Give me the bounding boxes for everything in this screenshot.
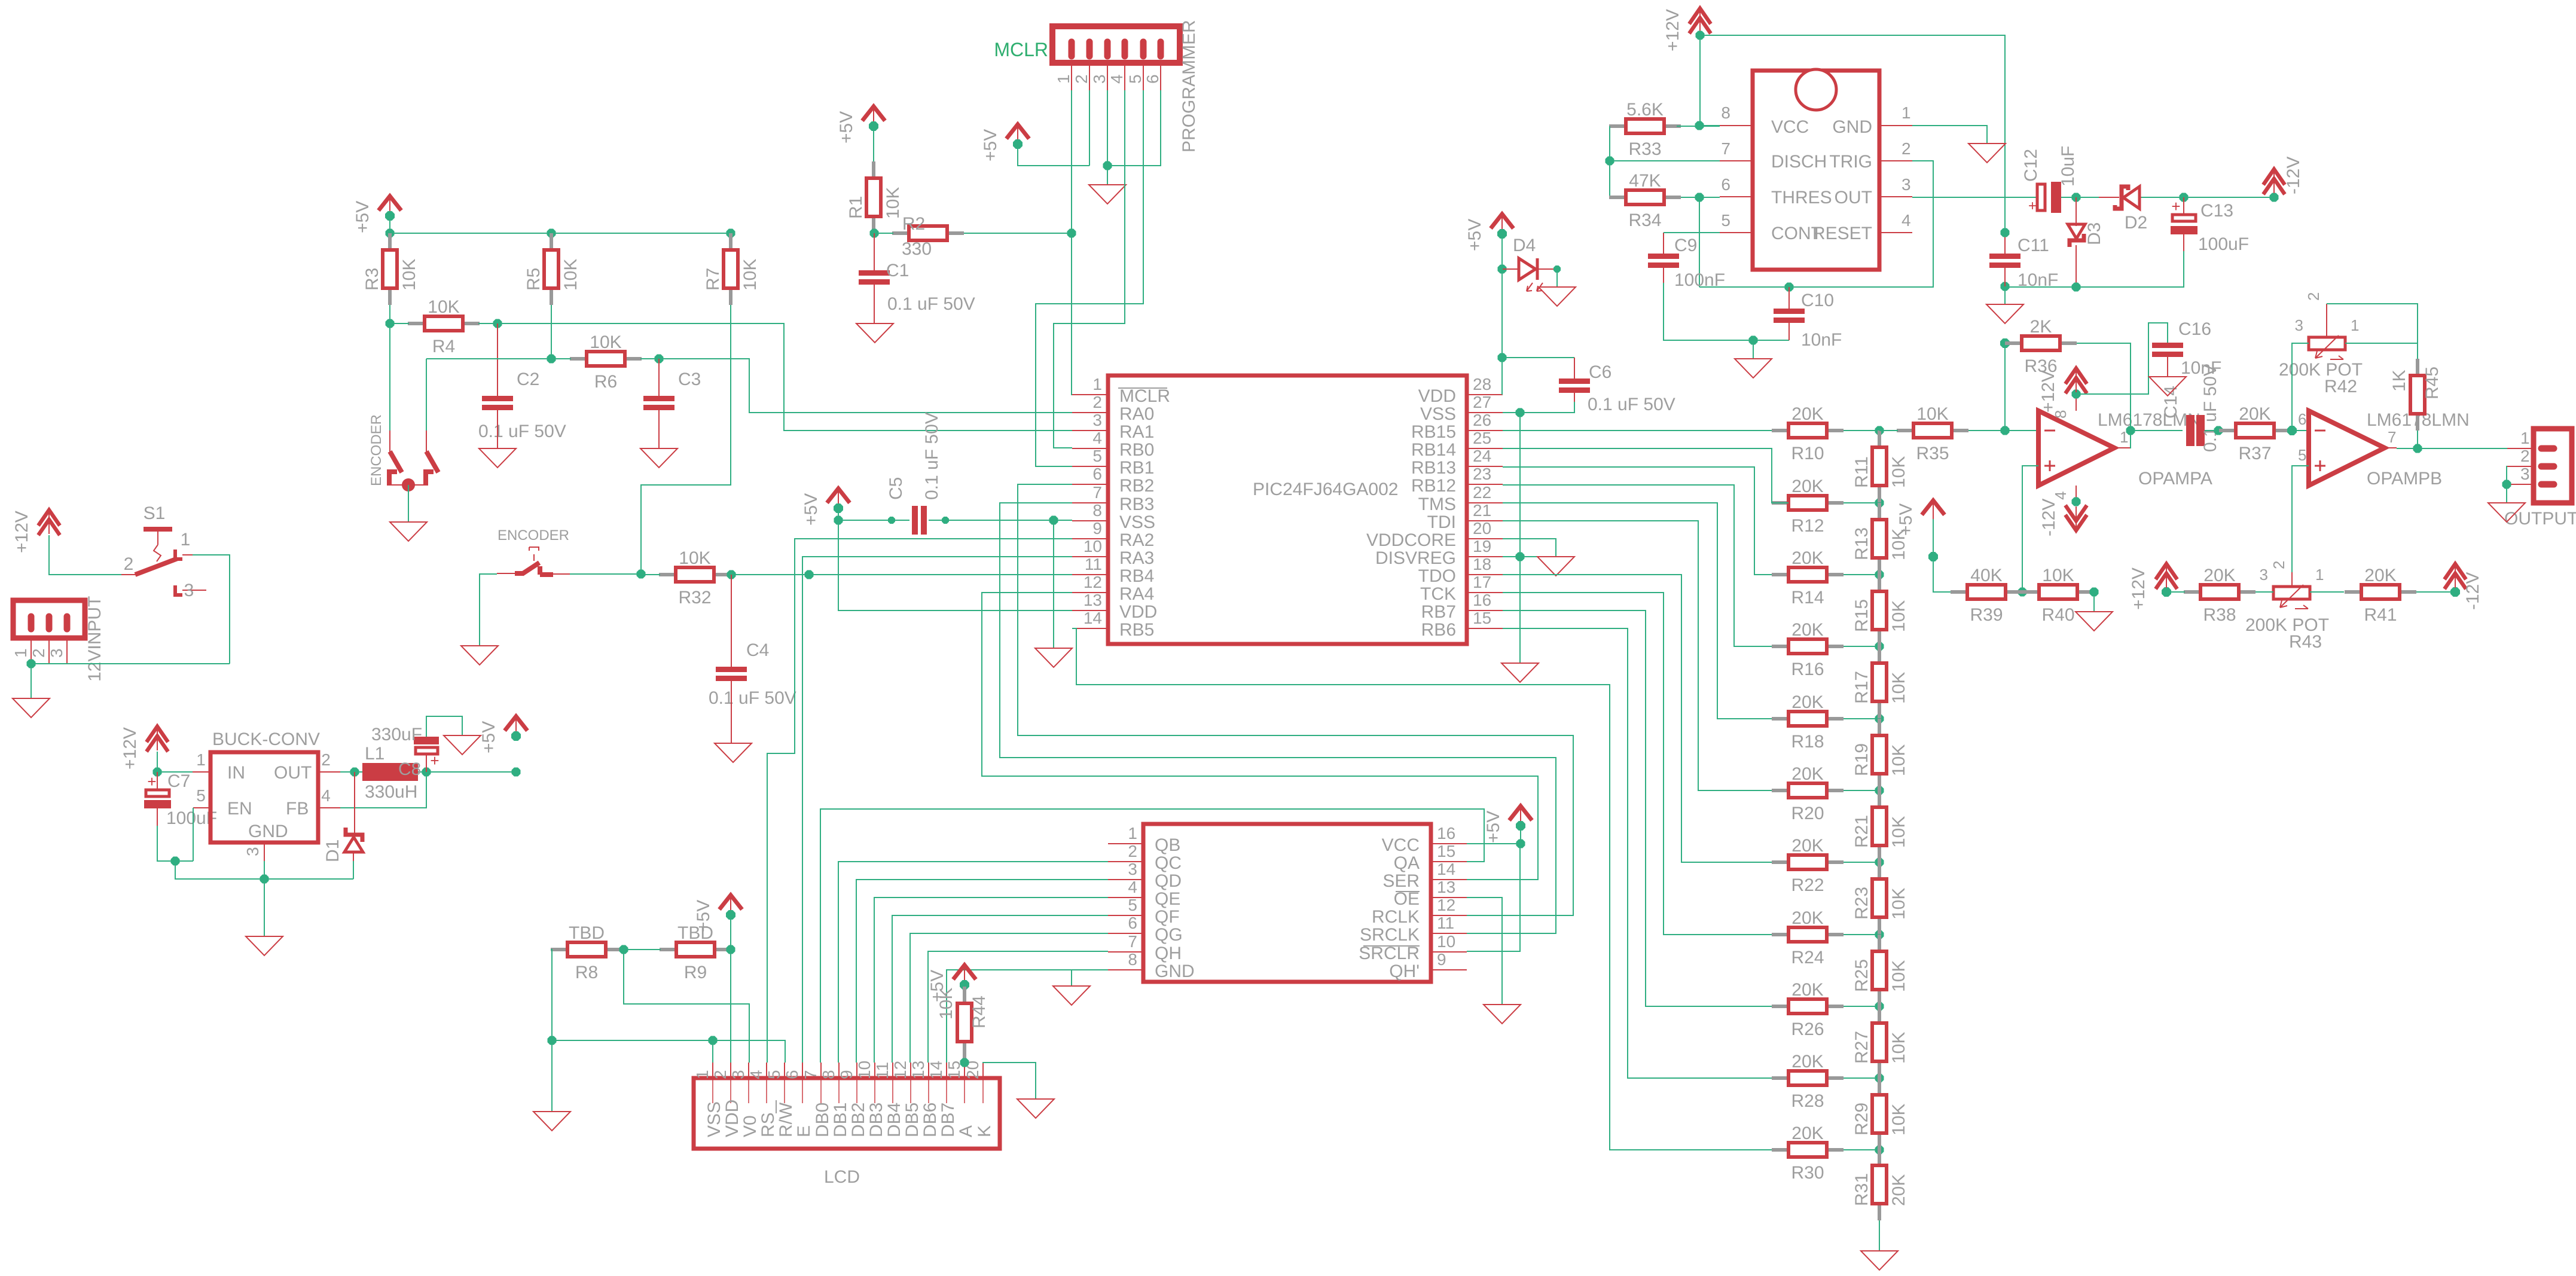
svg-text:20K: 20K [1791,620,1823,640]
node ladder R26 [1875,1002,1884,1011]
wire THRES [1681,197,1720,198]
wire SR GND to ground [1072,970,1108,986]
junction RB4 / encoder right stub [805,570,814,579]
junction D4 cathode [1553,265,1561,273]
svg-text:C14: C14 [2161,386,2181,419]
resistor R10 20K [1772,404,1844,463]
svg-text:R14: R14 [1791,588,1824,608]
wire gnd drop 555 [1753,340,1754,359]
wire opamp A fb node [2004,343,2006,431]
junction R7 top [727,229,735,238]
node ladder R12 [1875,499,1884,508]
wire RA2 to LCD RS [767,539,1072,1063]
svg-text:5.6K: 5.6K [1626,100,1664,120]
svg-text:DB0: DB0 [813,1103,832,1137]
power flag +5V (R44) [927,965,976,1002]
wire RA4 to SR SER [982,593,1538,880]
svg-text:K: K [975,1125,994,1137]
power flag +5V (SR VCC) [1484,806,1532,843]
svg-text:2: 2 [29,648,48,658]
svg-text:R24: R24 [1791,948,1824,967]
svg-text:10nF: 10nF [2181,358,2221,378]
svg-text:QA: QA [1394,853,1420,873]
junction R37/R42 [2287,426,2297,435]
pin buck EN stub [193,786,210,808]
potentiometer R43 200K [2245,566,2329,652]
wire R20 to ladder node [1844,790,1879,791]
wire OUT to L1 [340,771,362,773]
svg-text:20K: 20K [1791,548,1823,568]
wire RB14 to R12 [1503,448,1788,503]
svg-text:+12V: +12V [120,727,140,770]
svg-text:R45: R45 [2422,367,2442,399]
pin C5 left end [888,517,895,524]
wire DISVREG to gnd right [1503,556,1556,557]
svg-text:RB15: RB15 [1411,422,1456,442]
resistor R16 20K [1772,620,1844,679]
power flag -12V (R41) [2444,564,2466,589]
svg-text:QC: QC [1155,853,1182,873]
ground C4 [715,743,752,762]
svg-text:TRIG: TRIG [1829,152,1872,172]
svg-text:S1: S1 [144,503,166,523]
svg-text:4: 4 [1128,878,1137,896]
svg-text:TCK: TCK [1420,584,1456,604]
svg-text:4: 4 [1107,74,1126,84]
wire R10 to ladder node [1844,430,1879,431]
wire 12VINPUT gnd drop [30,664,32,698]
svg-text:DISVREG: DISVREG [1375,548,1456,568]
wire D2 to C13/-12V [2141,197,2274,198]
svg-text:R22: R22 [1791,875,1824,895]
wire D1 bottom to gnd rail [353,861,354,879]
wire programmer pin3/pin6 gnd rail [1107,90,1108,166]
wire QB to LCD DB1 [838,862,1108,1063]
resistor R14 20K [1772,548,1844,608]
wire CONT to C9 [1664,232,1720,233]
wire +5V to programmer pin2 [1018,144,1089,166]
svg-text:R19: R19 [1852,743,1872,776]
junction LCD A [960,1058,969,1067]
resistor R11 10K [1852,431,1909,502]
wire opamp B + input [2292,466,2309,572]
svg-text:1: 1 [693,1070,712,1079]
svg-text:D2: D2 [2125,213,2147,233]
svg-text:R28: R28 [1791,1091,1824,1111]
wire R28 to ladder node [1844,1077,1879,1079]
svg-text:VSS: VSS [704,1101,724,1137]
power flag +5V (ladder ref) [1896,500,1945,536]
ground D4 [1539,287,1576,306]
wire RB15 to R10 [1503,430,1772,431]
resistor R28 20K [1772,1052,1844,1111]
svg-text:7: 7 [2388,428,2396,446]
capacitor C14 [2161,364,2220,452]
svg-text:10: 10 [1437,932,1455,951]
wire C2 to gnd [497,410,498,448]
svg-text:RB6: RB6 [1421,620,1456,640]
wire R35 right to opamp [1968,430,2038,431]
svg-text:21: 21 [1473,501,1491,520]
svg-text:R18: R18 [1791,732,1824,752]
wire QD to LCD DB3 [874,898,1108,1063]
ground R40 [2076,612,2113,631]
svg-text:20K: 20K [1791,692,1823,712]
svg-text:3: 3 [1128,860,1137,878]
svg-text:QE: QE [1155,889,1180,909]
ground LCD K [1017,1099,1054,1118]
svg-text:24: 24 [1473,447,1491,465]
junction R41 -12V [2450,587,2460,597]
svg-text:27: 27 [1473,393,1491,411]
svg-text:6: 6 [1721,175,1730,194]
svg-text:1: 1 [196,750,206,769]
svg-text:2K: 2K [2030,317,2052,337]
svg-text:330: 330 [902,239,932,259]
capacitor C16 [2152,319,2221,378]
svg-text:MCLR: MCLR [1119,386,1170,406]
svg-text:BUCK-CONV: BUCK-CONV [212,729,320,749]
svg-text:+5V: +5V [694,900,713,932]
svg-text:R15: R15 [1852,599,1872,632]
svg-text:16: 16 [1473,591,1491,609]
svg-text:5: 5 [2298,446,2306,464]
svg-text:6: 6 [2298,410,2306,428]
svg-text:R3: R3 [362,268,382,291]
junction ladder +5V [1928,552,1938,561]
svg-text:5: 5 [765,1070,783,1079]
svg-text:TDO: TDO [1418,566,1456,586]
wire +12V to pin8 and C16 [2076,323,2168,394]
resistor R19 10K [1852,719,1909,790]
svg-text:THRES: THRES [1771,188,1832,207]
wire gnd rail to pin6 [1107,90,1161,166]
wire +5V rail R3-R7 [390,216,731,233]
junction 555 reset [2001,228,2010,237]
svg-text:RB12: RB12 [1411,476,1456,496]
wire R18 to ladder node [1844,718,1879,719]
svg-text:C13: C13 [2200,201,2233,221]
power flag +5V (C5) [801,489,850,526]
resistor R22 20K [1772,836,1844,895]
wire R1 bottom [873,233,874,234]
svg-text:TBD: TBD [569,923,605,943]
svg-text:R38: R38 [2203,605,2236,625]
svg-text:4: 4 [1092,429,1102,447]
wire R44 to LCD A [964,1058,965,1063]
wire QE to LCD DB4 [892,915,1108,1063]
svg-text:2: 2 [711,1070,730,1079]
svg-text:RS: RS [758,1112,778,1137]
svg-text:R44: R44 [969,996,989,1028]
pot R43 wiper pin [2270,561,2292,587]
svg-text:2: 2 [2305,292,2322,301]
svg-text:LCD: LCD [824,1167,860,1187]
svg-text:3: 3 [47,648,66,658]
wire 12VINPUT pins to S1 [31,663,230,664]
svg-text:5: 5 [1126,74,1144,84]
ground C3 [640,448,677,468]
svg-text:20K: 20K [1791,404,1823,424]
wire R9/VDD down [730,950,731,1063]
junction C7/EN gnd [171,857,180,866]
junction D3 gnd [2072,283,2081,292]
svg-text:LM6178LMN: LM6178LMN [2098,410,2200,430]
wire TRIG net [1699,161,1933,287]
wire C9 bottom rail [1664,283,1789,340]
svg-text:D3: D3 [2084,222,2104,245]
svg-text:R29: R29 [1852,1103,1872,1135]
junction R9 right [727,945,735,954]
op-amp U4B OPAMPB [2309,410,2470,489]
wire C4 to gnd [731,681,732,743]
svg-text:20K: 20K [1889,1174,1909,1206]
junction buck gnd [260,875,269,884]
junction programmer gnd [1103,161,1112,170]
ground ladder [1861,1251,1898,1270]
capacitor C8 [371,725,439,779]
wire +12V to S1 pin 2 [49,535,121,575]
resistor R20 20K [1772,764,1844,823]
power flag +12V (opamp A) [2065,368,2087,393]
wire R3 bottom to R4 [389,305,390,323]
power flag +5V (R1) [837,106,885,144]
svg-text:100uF: 100uF [2198,234,2249,254]
LED D4 [1502,236,1557,291]
capacitor C3 pin [658,359,660,399]
svg-text:10nF: 10nF [2018,270,2058,290]
svg-text:OPAMPB: OPAMPB [2367,469,2442,489]
svg-text:2: 2 [124,554,134,574]
svg-text:11: 11 [1437,914,1454,932]
svg-text:330uF: 330uF [371,725,422,744]
resistor R41 [2345,566,2416,625]
wire QC to LCD DB2 [856,880,1108,1063]
svg-text:14: 14 [1437,860,1455,878]
wire R22 to ladder node [1844,862,1879,863]
wire R32 to RB4 [731,574,1072,575]
svg-text:10K: 10K [1889,672,1909,704]
wire R26 to ladder node [1844,1006,1879,1007]
resistor R31 20K [1852,1149,1909,1220]
svg-text:10nF: 10nF [1801,330,1842,350]
wire programmer gnd drop [1107,166,1108,185]
resistor R1 [846,161,903,233]
svg-text:RA0: RA0 [1119,404,1154,424]
svg-text:R35: R35 [1916,444,1949,463]
label R2 [902,214,925,234]
svg-text:0.1 uF 50V: 0.1 uF 50V [922,412,942,500]
junction R4 right [493,319,502,328]
wire gnd rail under buck [175,861,353,879]
label -12V R41 [2463,572,2483,610]
svg-text:R31: R31 [1852,1173,1872,1206]
svg-text:+: + [2028,198,2037,214]
svg-text:12: 12 [1437,896,1455,914]
junction output gnd [2502,480,2511,489]
svg-text:47K: 47K [1629,171,1661,191]
svg-text:OPAMPA: OPAMPA [2138,469,2212,489]
svg-text:3: 3 [2520,465,2530,483]
svg-text:3: 3 [184,581,194,600]
wire R32 left gap [641,574,660,575]
power flag +12V (R38) [2156,564,2177,589]
LCD connector [693,1061,1000,1149]
wire gnd drop R8 [551,1040,553,1112]
resistor R32 [659,548,731,608]
svg-text:2: 2 [1092,393,1102,411]
svg-text:RB2: RB2 [1119,476,1154,496]
capacitor C10 [1774,287,1842,350]
svg-text:10K: 10K [1889,456,1909,488]
junction gnd rail [548,1036,557,1045]
svg-text:+: + [147,773,156,790]
junction opamp A V- [2072,497,2081,506]
wire THRES to TRIG net [1699,197,1700,287]
pin buck FB stub [318,786,340,808]
wire VSS27 to DISVREG [1519,413,1521,557]
svg-text:15: 15 [1437,842,1455,860]
svg-text:10K: 10K [1889,888,1909,920]
junction R6 right / C3 [655,355,664,364]
svg-text:GND: GND [1832,117,1872,137]
wire programmer pin5 to RB1 [1036,90,1143,466]
junction R8/R9 [619,945,628,954]
svg-text:TDI: TDI [1427,512,1456,532]
svg-text:C3: C3 [678,370,701,389]
svg-text:R42: R42 [2324,377,2357,396]
junction L1 left / D1 [350,768,359,777]
wire R35 left gap [1879,430,1898,431]
wire encoder right to R32 [570,573,641,575]
wire opamp A out to C14 [2131,430,2183,431]
wire R36 right to output [2077,343,2131,448]
junction C12/D3 [2072,193,2081,202]
wire VDD pin28 [1501,358,1503,395]
capacitor C12 (electrolytic) [2021,146,2078,214]
node ladder R22 [1875,858,1884,867]
svg-text:RB3: RB3 [1119,494,1154,514]
ground C1 [856,323,893,343]
svg-text:1: 1 [1054,74,1073,84]
resistor R7 [703,233,760,305]
svg-text:R40: R40 [2041,605,2074,625]
label C1 value [887,294,975,314]
label R45 1K [2389,370,2409,392]
svg-text:20K: 20K [1791,980,1823,1000]
svg-text:20K: 20K [1791,477,1823,496]
svg-text:V0: V0 [740,1115,760,1137]
resistor R21 10K [1852,790,1909,862]
ground DISVREG [1537,557,1574,576]
svg-text:20K: 20K [1791,908,1823,928]
wire R6 left gap [551,358,571,359]
svg-text:RA3: RA3 [1119,548,1154,568]
capacitor C5 [886,412,942,535]
wire buck GND to rail [264,861,265,879]
wire R42 pin1 to R45 [2345,343,2418,359]
svg-text:-12V: -12V [2039,499,2059,536]
wire S1 pin1 down to input net [193,555,230,664]
wire R30 to ladder node [1844,1149,1879,1150]
svg-text:10K: 10K [561,259,581,291]
junction R32 left [637,570,646,579]
svg-text:2: 2 [2520,447,2530,465]
wire R43 to R41 [2310,591,2344,593]
wire R6 node to RA0 [659,359,1072,413]
svg-text:+5V: +5V [981,129,1000,161]
svg-text:DB2: DB2 [849,1103,868,1137]
potentiometer R42 200K [2279,292,2363,396]
svg-text:C8: C8 [398,759,421,779]
svg-text:5: 5 [1092,447,1102,465]
wire C14 to R37 [2205,430,2219,431]
wire opamp A + input [2022,466,2038,592]
svg-text:+5V: +5V [1896,503,1916,536]
wire QG to LCD DB6 [928,951,1108,1063]
wire C6 top [1502,357,1574,358]
junction SR VCC [1516,840,1525,848]
svg-text:6: 6 [1143,74,1162,84]
power flag +5V (R3 rail) [353,196,401,233]
wire R42 pin3 to R37 node [2292,343,2309,431]
junction DISVREG [1516,552,1525,561]
svg-text:R33: R33 [1628,139,1661,159]
svg-text:VCC: VCC [1382,835,1420,855]
svg-text:R41: R41 [2364,605,2397,625]
wire R4 right gap [478,323,498,324]
capacitor C11 [1989,233,2058,290]
wire +12V to buck IN [157,752,193,772]
svg-text:R20: R20 [1791,804,1824,823]
junction opamp B output [2413,444,2422,453]
wire TCK to R24 [1503,593,1772,935]
svg-text:4: 4 [1902,211,1911,230]
svg-text:5: 5 [196,786,206,805]
svg-text:MCLR: MCLR [994,39,1048,60]
svg-text:R23: R23 [1852,887,1872,920]
svg-text:R/W: R/W [776,1102,796,1137]
node ladder R16 [1875,642,1884,651]
svg-text:VDD: VDD [1119,602,1157,622]
wire R33 left drop [1609,126,1610,197]
svg-text:10K: 10K [936,988,956,1019]
wire C5 right to VSS pin 8 [929,520,1072,521]
junction MCLR net [1067,229,1076,238]
ground encoder left [390,522,427,541]
wire R4 node to RA1 [498,323,1072,431]
wire VSS branch down [1053,520,1054,648]
ground C2 [479,448,516,468]
zener diode D1 [323,772,363,862]
svg-text:C1: C1 [886,261,909,280]
resistor R25 10K [1852,935,1909,1006]
svg-text:SRCLK: SRCLK [1360,925,1420,945]
connector PROGRAMMER header [1052,20,1199,152]
svg-text:8: 8 [1721,103,1730,122]
svg-text:4: 4 [321,786,331,805]
svg-text:3: 3 [243,847,262,856]
junction DISCH [1606,157,1614,166]
svg-text:28: 28 [1473,375,1491,393]
wire R9 left gap [624,949,661,950]
junction C11 gnd [2001,282,2010,291]
junction +5V C5 [834,516,843,525]
wire EN down [193,808,194,861]
junction +12V 555 [1696,31,1705,40]
wire programmer pin4 to RB0 [1054,90,1125,448]
svg-text:R21: R21 [1852,815,1872,848]
